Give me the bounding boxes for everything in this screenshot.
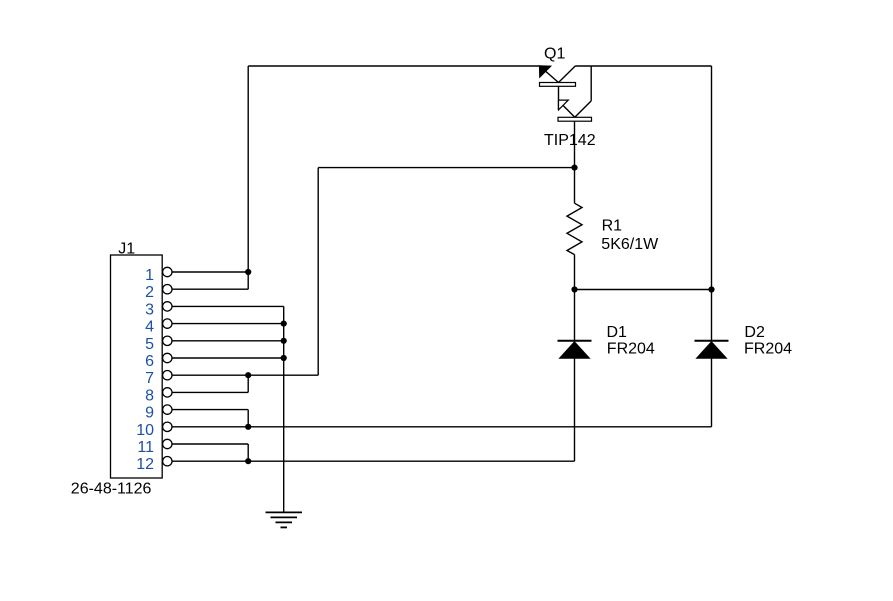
resistor R1 — [567, 203, 582, 254]
junction pin10 — [245, 424, 251, 430]
wire R1 to node — [574, 255, 576, 290]
junction R1/D1 node — [571, 286, 577, 292]
wire pin2 — [172, 288, 248, 290]
pin 7 — [145, 370, 172, 387]
wire node row — [575, 289, 712, 291]
pin 3 — [145, 301, 172, 318]
pin 6 — [145, 353, 172, 370]
svg-text:5: 5 — [145, 336, 154, 353]
svg-text:1: 1 — [145, 267, 154, 284]
Q1 emitter arrow (filled) — [539, 66, 551, 78]
svg-text:11: 11 — [137, 439, 154, 456]
svg-text:TIP142: TIP142 — [544, 132, 596, 149]
svg-text:3: 3 — [145, 301, 154, 318]
diode D2 — [695, 341, 729, 359]
Q1 collector vertical — [590, 66, 592, 101]
svg-text:Q1: Q1 — [544, 46, 565, 63]
wire pin12 to D1 anode — [172, 460, 574, 462]
wire pin1/pin2 vertical to Q1 emitter — [247, 66, 249, 289]
wire pin7 — [172, 374, 318, 376]
svg-text:12: 12 — [136, 456, 154, 473]
Q1 internal base lead — [558, 86, 560, 110]
wire pin4 — [172, 323, 283, 325]
svg-text:6: 6 — [145, 353, 154, 370]
junction D2 node — [708, 286, 714, 292]
wire pin9 — [172, 409, 248, 411]
pin 2 — [145, 284, 172, 301]
wire node to D2 cathode — [711, 290, 713, 342]
wire D2 anode down — [711, 358, 713, 427]
svg-text:7: 7 — [145, 370, 154, 387]
junction pin12 — [245, 458, 251, 464]
pin 11 — [137, 439, 172, 456]
junction Q1 base node — [571, 165, 577, 171]
wire pin1 — [172, 271, 248, 273]
wire pin5 — [172, 340, 283, 342]
svg-text:26-48-1126: 26-48-1126 — [71, 480, 152, 497]
Q1 lower base bar — [558, 117, 592, 121]
Q1 lower collector line — [575, 101, 591, 117]
svg-text:R1: R1 — [602, 218, 623, 235]
svg-text:D2: D2 — [744, 324, 765, 341]
wire riser to base net — [317, 168, 319, 376]
wire right collector drop — [711, 66, 713, 290]
wire pin7/pin8 link — [247, 375, 249, 392]
junction pin7 — [245, 372, 251, 378]
svg-text:J1: J1 — [118, 241, 135, 258]
junction pin4 — [281, 321, 287, 327]
wire pin11 — [172, 443, 248, 445]
pin 1 — [145, 267, 172, 284]
pin 8 — [145, 387, 172, 404]
svg-text:4: 4 — [145, 319, 154, 336]
transistor Q1 — [539, 66, 591, 121]
connector J1 body — [111, 255, 163, 478]
svg-text:2: 2 — [145, 284, 154, 301]
svg-text:10: 10 — [136, 422, 154, 439]
Q1 emitter line — [539, 66, 558, 83]
svg-text:FR204: FR204 — [607, 341, 655, 358]
wire base net horizontal — [318, 167, 574, 169]
Q1 upper base bar — [540, 83, 576, 87]
pin 10 — [136, 422, 172, 439]
junction pin6 — [281, 355, 287, 361]
svg-text:5K6/1W: 5K6/1W — [601, 236, 659, 253]
wire D1 anode down — [574, 358, 576, 461]
ground — [266, 512, 303, 527]
svg-text:9: 9 — [145, 405, 154, 422]
pin 9 — [145, 405, 172, 422]
wire top left to Q1 emitter — [248, 65, 539, 67]
wire pin6 — [172, 357, 283, 359]
pin 4 — [145, 319, 172, 336]
wire pin11/pin12 link — [247, 444, 249, 461]
wire Q1 base to R1 — [574, 121, 576, 203]
pin 5 — [145, 336, 172, 353]
wire ground vertical — [283, 306, 285, 512]
svg-text:D1: D1 — [607, 324, 628, 341]
Q1 lower emitter line — [561, 103, 575, 117]
svg-text:FR204: FR204 — [744, 341, 792, 358]
diode D1 — [558, 341, 592, 359]
svg-text:8: 8 — [145, 387, 154, 404]
pin 12 — [136, 456, 172, 473]
wire top right — [576, 65, 712, 67]
Q1 upper collector line — [559, 66, 576, 83]
junction pins1-2 — [245, 269, 251, 275]
wire pin8 — [172, 391, 248, 393]
wire pin9/pin10 link — [247, 410, 249, 427]
wire pin10 to D2 anode — [172, 426, 711, 428]
wire node to D1 cathode — [574, 290, 576, 342]
junction pin5 — [281, 338, 287, 344]
Q1 lower emitter arrow (open) — [559, 100, 569, 110]
wire pin3 — [172, 305, 283, 307]
